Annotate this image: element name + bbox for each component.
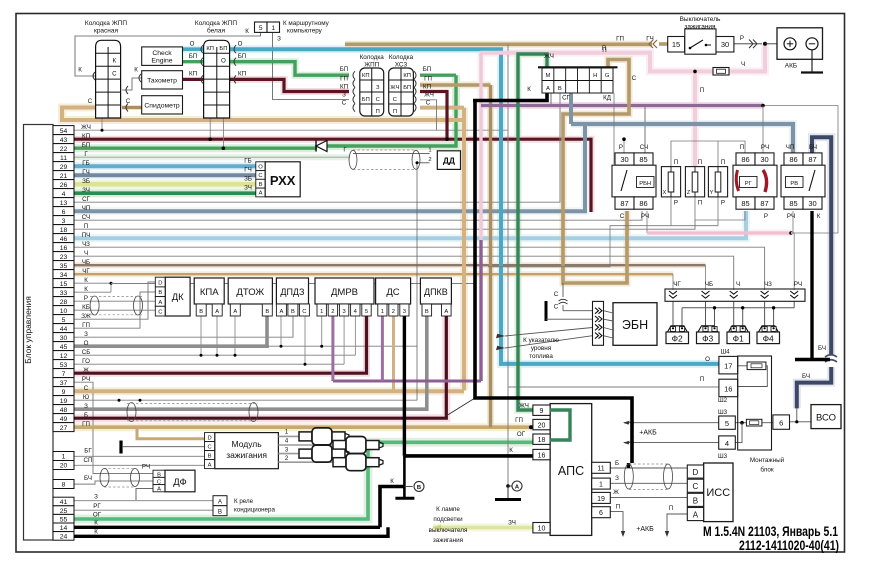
relay РБН fuel pump relay: [615, 153, 634, 165]
svg-text:Ф1: Ф1: [733, 334, 744, 344]
spark plug 3: [299, 449, 312, 458]
wire К black pin14 up to ground point В: [380, 487, 404, 528]
wire colour glow underlay: [74, 139, 591, 212]
wire РЧ thin right stub: [791, 232, 838, 234]
svg-text:П: П: [393, 109, 397, 115]
svg-text:БЧ: БЧ: [818, 345, 826, 352]
svg-text:уровня: уровня: [531, 345, 551, 352]
svg-text:ДПДЗ: ДПДЗ: [280, 287, 304, 297]
wire К black РВ-30 to ground: [810, 211, 813, 358]
svg-text:К: К: [94, 520, 98, 527]
wire pins 15/33 К join: [74, 282, 111, 284]
Ш4 17-16 fuse loop: [738, 365, 747, 367]
wire Р РБН-30 stub to КП run: [623, 139, 625, 153]
svg-text:ДТОЖ: ДТОЖ: [236, 287, 264, 298]
svg-text:БЧ: БЧ: [809, 144, 817, 151]
svg-text:ЖЧ: ЖЧ: [519, 403, 529, 410]
svg-text:Колодка ЖПП: Колодка ЖПП: [85, 20, 127, 27]
svg-text:8: 8: [62, 482, 66, 489]
svg-text:ЧГ: ЧГ: [82, 268, 90, 275]
svg-text:3: 3: [62, 218, 66, 225]
svg-text:К реле: К реле: [234, 498, 254, 505]
wire pin 16 ЧЗ thin to injector rail: [74, 247, 765, 290]
Спидометр box: [142, 96, 183, 114]
svg-text:87: 87: [808, 155, 816, 164]
svg-text:48: 48: [60, 407, 68, 414]
svg-text:Р: Р: [721, 200, 725, 207]
wire БЧ navy РВ-87 right side run: [812, 137, 831, 354]
АПС-ИСС pair ellipses: [624, 464, 633, 489]
connector Колодка ХСЗ: [389, 68, 414, 116]
wire КП maroon tachometer to white connector: [183, 78, 204, 81]
svg-text:26: 26: [60, 182, 68, 189]
svg-text:С: С: [620, 213, 625, 220]
white connector БП stub: [222, 118, 224, 148]
injector feed drops and common rail: [672, 301, 674, 327]
wire pin 19 Ю thin: [74, 399, 417, 401]
svg-text:Монтажный: Монтажный: [750, 456, 785, 464]
svg-text:10: 10: [60, 308, 68, 315]
wire pin 5 ЗЖ to ДК D: [74, 282, 155, 319]
wire pin 30 З to ДПДЗ B: [74, 316, 293, 337]
svg-text:С: С: [88, 98, 93, 105]
svg-text:РХХ: РХХ: [270, 173, 296, 188]
box 17: [719, 356, 738, 374]
svg-text:34: 34: [60, 272, 68, 279]
svg-text:ДПКВ: ДПКВ: [424, 287, 448, 297]
wire РЧ pink РБН-86 to injector rail: [646, 211, 648, 233]
ДД knock sensor box: [437, 151, 460, 170]
fuse Z: [685, 167, 704, 197]
svg-text:А: А: [233, 309, 237, 315]
svg-text:G: G: [605, 73, 610, 79]
wire Р net below fuses X/Y: [717, 197, 719, 226]
svg-text:Ф3: Ф3: [702, 334, 713, 344]
wire КП maroon white connector to ЖПП: [230, 79, 349, 91]
svg-text:15: 15: [672, 40, 680, 49]
wire РЧ РГ-30 up to РЧ run: [762, 106, 764, 153]
wire pin 12 СБ thin with sensor drops: [74, 354, 355, 356]
svg-text:АКБ: АКБ: [785, 63, 797, 70]
svg-text:ЧП: ЧП: [82, 205, 91, 212]
svg-text:ГП: ГП: [82, 322, 90, 329]
svg-text:В: В: [158, 290, 162, 296]
wire К pin 14 black ground: [74, 526, 380, 529]
diode on БП wire: [316, 141, 327, 152]
wire СП pin 20 to ignition module A: [74, 464, 205, 466]
svg-text:ЗЧ: ЗЧ: [82, 187, 90, 194]
svg-text:87: 87: [620, 199, 628, 208]
svg-text:1: 1: [320, 309, 323, 315]
ДФ pair ellipses: [100, 469, 109, 487]
svg-text:35: 35: [60, 263, 68, 270]
wire З route computer box 1 down to ЖПП connector: [273, 32, 350, 99]
svg-text:О: О: [84, 340, 89, 347]
svg-text:ЧП: ЧП: [786, 144, 795, 151]
ДТОЖ coolant temp sensor: [228, 278, 272, 304]
shielded pair ellipses Р/КБ wires: [90, 296, 99, 315]
svg-text:А: А: [279, 309, 283, 315]
svg-text:КП: КП: [206, 46, 214, 52]
wire pin 44 ГП to ДК B: [74, 292, 155, 328]
svg-text:К: К: [527, 86, 531, 93]
svg-text:46: 46: [60, 236, 68, 243]
svg-text:16: 16: [538, 452, 546, 459]
svg-text:СГ: СГ: [82, 196, 90, 203]
wire ГП brown branch down to АПС-20 run: [489, 85, 492, 427]
wire О cyan check engine to white connector: [183, 47, 204, 51]
АПС box: [550, 404, 592, 536]
montage block internal fuse link: [735, 422, 746, 424]
Check Engine box: [142, 47, 183, 66]
РХХ idle valve pin boxes: [256, 162, 265, 171]
ignition switch box 30: [716, 37, 734, 53]
svg-text:З: З: [342, 92, 346, 99]
injector Ф2: [668, 326, 688, 332]
svg-text:1: 1: [381, 309, 384, 315]
svg-text:85: 85: [639, 155, 647, 164]
svg-text:ЗЧ: ЗЧ: [244, 185, 252, 192]
ЭБУ pin boxes group A: [53, 126, 74, 135]
svg-text:24: 24: [60, 534, 68, 541]
svg-text:топлива: топлива: [529, 353, 553, 360]
svg-text:3: 3: [342, 309, 345, 315]
ДК oxygen sensor: [155, 277, 165, 287]
ЭБН box: [613, 303, 657, 346]
fuse right of 17: [747, 362, 766, 370]
svg-text:2: 2: [331, 309, 334, 315]
svg-text:1: 1: [271, 25, 275, 32]
svg-text:16: 16: [724, 384, 732, 393]
ИСС shield dashes: [629, 463, 668, 465]
svg-text:С: С: [84, 385, 89, 392]
svg-text:20: 20: [538, 422, 546, 429]
svg-text:30: 30: [721, 40, 729, 49]
wire ЗЧ pale yellow lamp to АПС 10: [433, 526, 533, 530]
svg-text:К: К: [390, 478, 394, 485]
wire arrow Р: [749, 40, 753, 49]
svg-text:П: П: [700, 376, 704, 383]
montage block outline: [738, 356, 772, 450]
wire С ХСЗ connector to vertical: [420, 106, 464, 110]
wire РЧ РВ-85 drop: [792, 211, 794, 233]
Модуль зажигания pins: [205, 433, 215, 442]
wire С tan vertical x=464: [462, 108, 466, 391]
svg-text:54: 54: [60, 128, 68, 135]
svg-text:+АКБ: +АКБ: [636, 526, 654, 533]
svg-text:ГП: ГП: [515, 417, 523, 424]
fuse X: [661, 167, 680, 197]
svg-text:ГП: ГП: [424, 76, 432, 83]
box 6: [773, 415, 790, 429]
battery to АКБ plus: [765, 43, 782, 45]
svg-text:Р: Р: [84, 295, 88, 302]
wire pin 27 ГП tan to АПС 20: [74, 425, 533, 429]
svg-text:РЧ: РЧ: [794, 281, 802, 288]
svg-text:БП: БП: [362, 97, 370, 103]
svg-text:В: В: [259, 182, 263, 188]
svg-text:С: С: [376, 97, 380, 103]
svg-text:РЧ: РЧ: [641, 213, 649, 220]
svg-text:30: 30: [760, 155, 768, 164]
ground stub под К wire with circle В: [403, 456, 406, 498]
svg-text:Ч: Ч: [736, 281, 740, 288]
svg-text:ЖЧ: ЖЧ: [81, 124, 91, 131]
svg-text:6: 6: [599, 510, 603, 517]
svg-text:28: 28: [60, 299, 68, 306]
svg-text:СБ: СБ: [82, 349, 91, 356]
white connector Колодка ЖПП белая: [204, 40, 230, 118]
svg-text:П: П: [616, 504, 620, 511]
svg-text:З: З: [615, 475, 619, 482]
svg-text:Колодка: Колодка: [360, 54, 385, 61]
wire МЗ C to ground bar: [123, 446, 205, 448]
wire П/purple vertical x=481 down to ДМРВ net: [479, 53, 482, 240]
svg-text:41: 41: [60, 499, 68, 506]
svg-text:1: 1: [428, 148, 431, 154]
svg-text:К: К: [84, 286, 88, 293]
svg-text:З: З: [94, 494, 98, 501]
wire К black СГ-А ground net: [473, 93, 547, 101]
svg-text:Тахометр: Тахометр: [147, 78, 177, 85]
svg-text:СЧ: СЧ: [82, 214, 90, 221]
wire К pin 24 black ground: [74, 527, 388, 536]
svg-text:О: О: [221, 58, 226, 65]
red connector column stub to ЖЧ: [101, 118, 103, 130]
svg-text:21: 21: [60, 173, 68, 180]
wire СЧ thin from РБН-85 to СГ connector: [551, 93, 645, 153]
svg-text:А: А: [215, 309, 219, 315]
wire pin 48 З gray thick to ДПКВ B: [74, 316, 427, 409]
svg-text:В: В: [417, 485, 421, 491]
wire pin 9 С tan thick: [74, 389, 464, 393]
box 5: [719, 416, 736, 429]
wire pin 37 РЧ thin to ДФ B: [74, 382, 153, 473]
Тахометр box: [142, 71, 183, 89]
wire П thin fuse tops: [671, 141, 745, 167]
svg-text:С: С: [126, 98, 131, 105]
svg-text:15: 15: [60, 281, 68, 288]
svg-text:М: М: [545, 73, 550, 79]
wire ЧП slate СГ-В down to y124 run: [569, 93, 573, 124]
svg-text:Р: Р: [764, 213, 768, 220]
svg-text:С: С: [258, 173, 262, 179]
svg-text:Колодка: Колодка: [389, 54, 414, 61]
svg-text:КП: КП: [340, 84, 348, 91]
svg-text:К: К: [817, 213, 821, 220]
ЭБН diagonal pin links: [604, 311, 614, 313]
spark plug 4: [333, 441, 346, 450]
svg-text:В: В: [558, 86, 562, 92]
wire pin 22 БП green with diode: [74, 146, 317, 149]
svg-text:З: З: [376, 85, 380, 91]
svg-text:КП: КП: [82, 133, 90, 140]
wire pin 28 Р / 10 КБ to ДК with twisted pair: [74, 300, 155, 302]
svg-text:55: 55: [60, 516, 68, 523]
relay РВ fan relay: [784, 153, 803, 165]
svg-text:6: 6: [779, 419, 783, 428]
svg-text:Р: Р: [619, 144, 623, 151]
wire П АПС-6 +АКБ arrow: [610, 512, 623, 531]
svg-text:Выключатель: Выключатель: [680, 16, 721, 23]
svg-text:В: В: [425, 309, 429, 315]
svg-text:ЧЗ: ЧЗ: [82, 241, 90, 248]
svg-text:B: B: [693, 496, 698, 505]
wire ГП tan ХСЗ right to ignition switch: [420, 83, 491, 87]
svg-text:12: 12: [60, 353, 68, 360]
svg-text:выключателя: выключателя: [429, 527, 468, 534]
ЭБН connector strip: [593, 301, 604, 345]
wire Ж АПС-19 to ИСС B: [610, 496, 687, 498]
ground circle A: [506, 484, 510, 488]
svg-text:5: 5: [365, 309, 368, 315]
svg-text:4: 4: [725, 439, 729, 448]
svg-text:ЗБ: ЗБ: [82, 178, 90, 185]
wire +АКБ arrows to boxes 5/4: [624, 422, 719, 424]
svg-text:КБ: КБ: [82, 304, 90, 311]
wire К red connector to route computer: [75, 32, 261, 76]
wire КП maroon ХСЗ to pin43 run: [420, 92, 447, 140]
svg-text:Спидометр: Спидометр: [144, 103, 179, 110]
svg-text:ВСО: ВСО: [816, 413, 836, 424]
svg-text:РЧ: РЧ: [787, 213, 795, 220]
ЭБУ pin boxes group B: [53, 452, 74, 461]
A/C relay pin В: [213, 506, 227, 516]
svg-text:14: 14: [60, 525, 68, 532]
svg-text:Y: Y: [710, 190, 714, 196]
svg-text:X: X: [663, 190, 667, 196]
wire Б АПС-11 to ИСС D: [610, 467, 687, 469]
svg-text:Ж: Ж: [613, 489, 619, 496]
svg-text:Р: Р: [740, 35, 744, 42]
svg-text:С: С: [632, 75, 637, 82]
wire pin 43 КП dark maroon: to x=591 then down to 212: [74, 139, 591, 212]
wire ЭБН ground bar: [545, 301, 548, 321]
svg-text:зажигания: зажигания: [226, 450, 267, 460]
svg-text:М 1.5.4N 21103, Январь 5.1: М 1.5.4N 21103, Январь 5.1: [703, 524, 838, 539]
svg-text:С: С: [554, 304, 559, 311]
svg-text:Ю: Ю: [83, 394, 89, 401]
wire П pink vertical to fuse Z: [693, 71, 697, 166]
shielded pair ellipses З/Б wires: [127, 403, 136, 422]
svg-text:белая: белая: [207, 27, 225, 35]
svg-text:87: 87: [760, 199, 768, 208]
svg-text:П: П: [740, 144, 744, 151]
wire ЖЧ green СГ connector М to АПС 9: [518, 54, 547, 410]
wire РГ pin 25 to A/C relay B: [74, 509, 213, 511]
ground circle B: [414, 481, 424, 491]
wire pin 18 П thin long run: [74, 220, 695, 229]
svg-text:РВ: РВ: [790, 181, 798, 187]
ДПДЗ throttle position sensor: [276, 278, 308, 304]
АПС right pins: [592, 462, 611, 473]
wire pin 45 О gray thick to ДТОЖ B + thin ext: [74, 316, 267, 346]
svg-text:Б: Б: [615, 460, 619, 467]
ground bar near МЗ: [119, 441, 122, 454]
battery ground: [811, 50, 813, 72]
svg-text:К: К: [134, 67, 138, 74]
svg-text:П: П: [602, 47, 606, 54]
svg-text:С: С: [302, 309, 306, 315]
svg-text:D: D: [693, 468, 699, 477]
wire БГ pin 1 to ignition module B: [74, 455, 205, 457]
svg-text:К маршрутному: К маршрутному: [283, 20, 330, 27]
svg-text:К: К: [112, 58, 116, 65]
svg-text:К: К: [78, 67, 82, 74]
svg-text:АПС: АПС: [558, 464, 584, 478]
svg-text:П: П: [84, 223, 88, 230]
fuse on battery wire: [713, 68, 729, 76]
svg-text:Р: Р: [674, 200, 678, 207]
fuse inside montage block: [746, 419, 762, 426]
svg-text:СП: СП: [84, 457, 93, 464]
svg-text:Ш3: Ш3: [718, 453, 728, 460]
svg-text:ГЧ: ГЧ: [244, 167, 251, 174]
РХХ box: [265, 162, 300, 197]
fuse Y: [708, 167, 727, 197]
svg-text:С: С: [426, 100, 431, 107]
svg-text:П: П: [674, 159, 678, 166]
svg-text:D: D: [158, 281, 162, 287]
svg-text:БГ: БГ: [84, 448, 92, 455]
svg-text:РЧ: РЧ: [761, 144, 769, 151]
svg-text:1: 1: [62, 454, 66, 461]
svg-text:Engine: Engine: [151, 58, 172, 65]
svg-text:29: 29: [60, 164, 68, 171]
ДМРВ mass air flow sensor: [315, 278, 374, 304]
svg-text:КП: КП: [403, 73, 411, 79]
svg-text:К: К: [509, 447, 513, 454]
wire purple ДМРВ-2 / ДС-1 net: [333, 380, 481, 383]
ДФ А stub: [136, 488, 153, 500]
svg-text:53: 53: [60, 362, 68, 369]
svg-text:ОГ: ОГ: [93, 512, 102, 519]
svg-text:Б: Б: [84, 412, 88, 419]
svg-text:ЖЧ: ЖЧ: [424, 92, 434, 99]
svg-text:О: О: [190, 41, 195, 48]
svg-text:ЧГ: ЧГ: [673, 281, 681, 288]
svg-text:К лампе: К лампе: [436, 506, 460, 513]
wire fuel gauge arrows: [505, 328, 593, 337]
svg-text:КП: КП: [189, 71, 197, 78]
АПС left pins: [533, 405, 550, 415]
wire З АПС-1 to ИСС C: [610, 482, 687, 484]
wire П fuse Z bottom to РГ: [695, 197, 745, 220]
svg-text:ЗБ: ЗБ: [244, 176, 252, 183]
svg-text:К: К: [84, 277, 88, 284]
svg-text:ГБ: ГБ: [82, 160, 89, 167]
svg-text:ГП: ГП: [340, 76, 348, 83]
svg-text:О: О: [705, 356, 710, 363]
svg-text:6: 6: [62, 209, 66, 216]
svg-text:C: C: [693, 482, 699, 491]
svg-text:ДФ: ДФ: [173, 477, 186, 488]
svg-text:Ч: Ч: [741, 61, 745, 68]
svg-text:+АКБ: +АКБ: [639, 430, 657, 437]
svg-text:9: 9: [540, 408, 544, 415]
wire thin vertical x=508 down to ground point А: [507, 44, 509, 486]
svg-text:ПЧ: ПЧ: [82, 232, 91, 239]
wire БЧ pin 8 to ДФ C: [74, 481, 153, 484]
svg-text:З: З: [84, 331, 88, 338]
svg-text:Ж: Ж: [83, 367, 89, 374]
wire С thin break to ЭБН: [562, 283, 564, 297]
svg-text:БП: БП: [82, 142, 91, 149]
svg-text:З: З: [277, 36, 281, 43]
wire К black ДС-3 down to АПС-16: [403, 316, 406, 456]
svg-text:Н: Н: [593, 73, 597, 79]
red connector Колодка ЖПП красная: [96, 40, 121, 118]
